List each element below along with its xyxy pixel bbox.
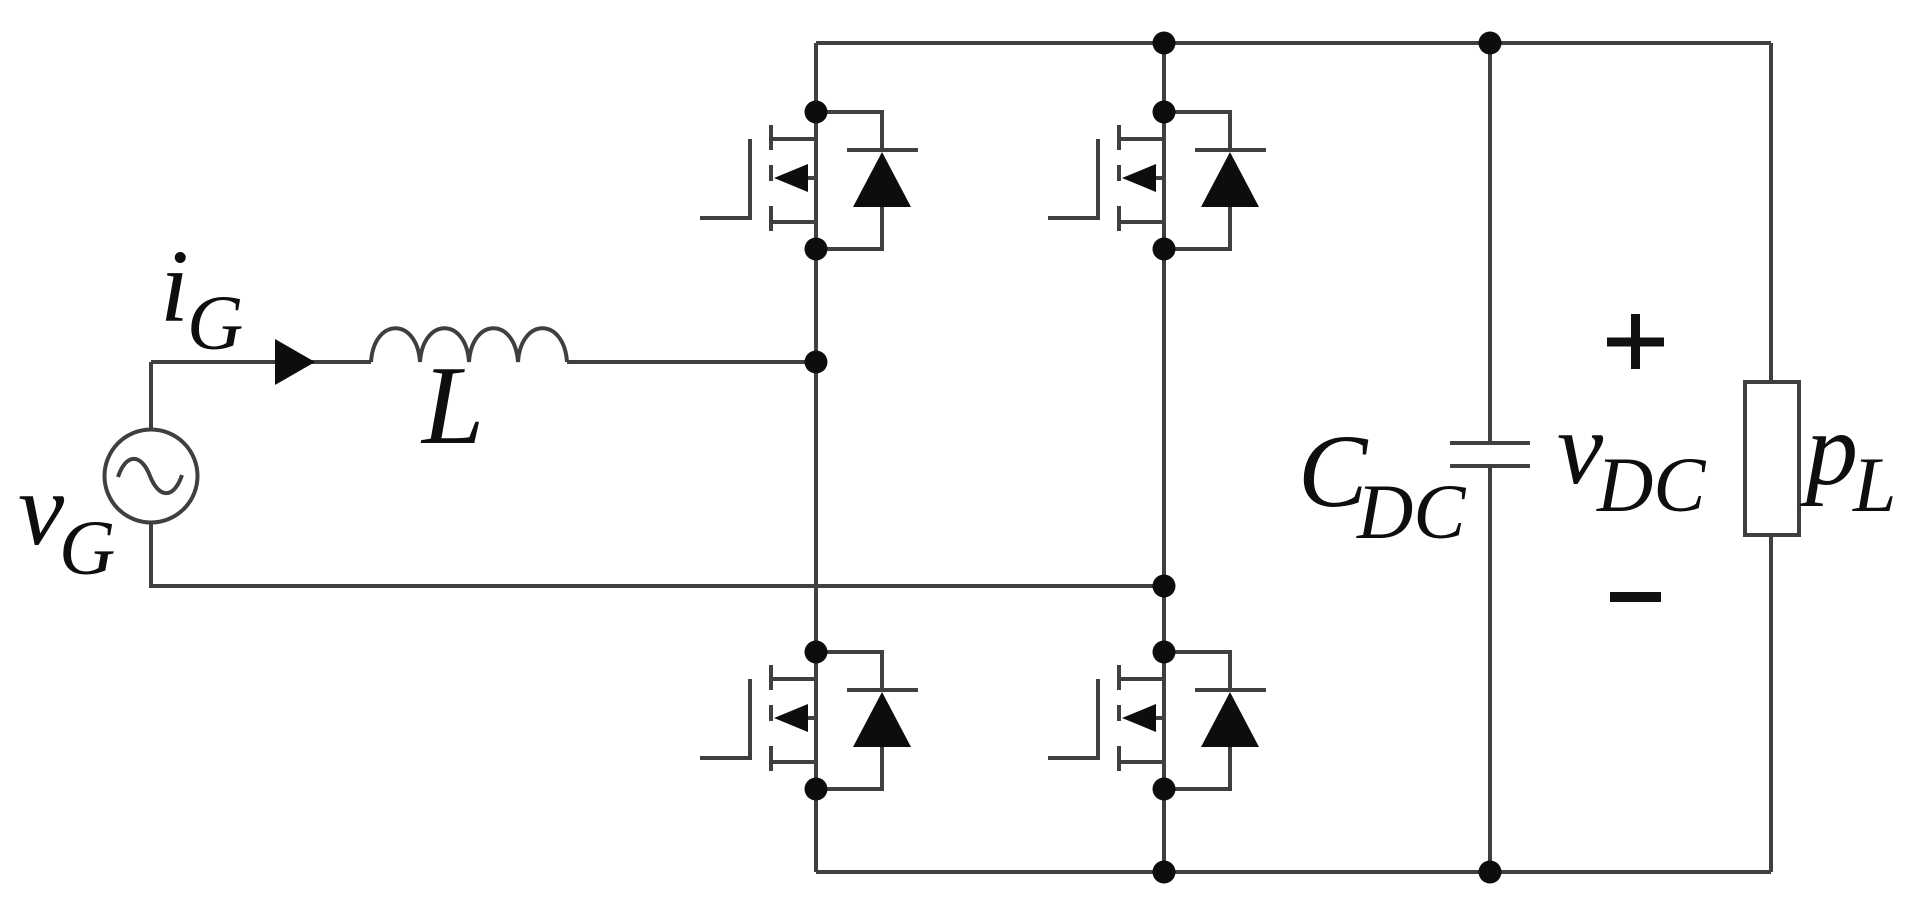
ac source sine wave — [118, 459, 182, 493]
ac source vG circle — [105, 430, 198, 523]
svg-text:i: i — [160, 229, 189, 344]
svg-text:DC: DC — [1356, 468, 1466, 555]
transistor Q2 top-right with body diode — [1048, 101, 1266, 261]
capacitor C_DC plates — [1450, 443, 1530, 466]
svg-text:G: G — [187, 279, 243, 366]
transistor Q3 bottom-left with body diode — [700, 641, 918, 801]
svg-text:p: p — [1799, 392, 1858, 507]
wire source top to inductor — [151, 360, 371, 364]
svg-text:L: L — [420, 344, 484, 468]
node: top bus capacitor — [1479, 32, 1502, 55]
wire load bottom to DC- bus — [1769, 537, 1773, 872]
wire bridge left leg — [814, 43, 818, 872]
wire bottom DC- bus — [816, 870, 1771, 874]
wire capacitor top leg — [1488, 43, 1492, 443]
node: bottom bus capacitor — [1479, 861, 1502, 884]
label plus — [1607, 314, 1664, 369]
node: bottom bus right leg — [1153, 861, 1176, 884]
svg-text:L: L — [1852, 441, 1896, 528]
wire source left drop — [149, 362, 153, 430]
node: bridge midpoint left (inductor) — [805, 351, 828, 374]
node: top bus right leg — [1153, 32, 1176, 55]
wire top DC+ bus — [816, 41, 1771, 45]
label minus — [1610, 592, 1661, 602]
current arrow iG — [275, 339, 315, 385]
load resistor p_L — [1745, 382, 1799, 535]
wire inductor to bridge midpoint — [567, 360, 816, 364]
wire source bottom return — [151, 522, 1164, 586]
node: bridge midpoint right (source return) — [1153, 575, 1176, 598]
transistor Q1 top-left with body diode — [700, 101, 918, 261]
transistor Q4 bottom-right with body diode — [1048, 641, 1266, 801]
wire bridge right leg — [1162, 43, 1166, 872]
svg-text:DC: DC — [1596, 441, 1706, 528]
wire right side to load — [1769, 43, 1773, 380]
svg-text:G: G — [59, 504, 115, 591]
wire capacitor bottom leg — [1488, 466, 1492, 872]
svg-text:v: v — [18, 452, 65, 567]
inductor L — [371, 328, 567, 362]
